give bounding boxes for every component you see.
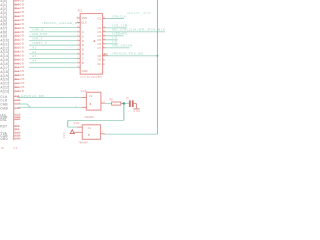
svg-text:4: 4 xyxy=(102,131,104,133)
wire net to IC1 pin row 10 xyxy=(29,66,80,68)
svg-text:I5: I5 xyxy=(82,48,85,52)
bus tap A[20] net BC0B xyxy=(0,77,25,82)
svg-text:I4B: I4B xyxy=(15,106,21,110)
svg-text:74HMN: 74HMN xyxy=(78,140,87,144)
bus tap A[22] net BD0B xyxy=(0,85,25,90)
bus tap SDR net I2B xyxy=(0,115,21,120)
svg-text:12: 12 xyxy=(103,30,105,32)
svg-text:O5: O5 xyxy=(97,38,101,42)
svg-text:ORD: ORD xyxy=(0,137,8,141)
bus tap A[3] net A10B xyxy=(0,10,24,15)
bus tap CAB net I3B xyxy=(0,133,21,138)
bus tap A[23] net A20B xyxy=(0,89,24,94)
junction on right vertical xyxy=(156,55,158,57)
capacitor C8 xyxy=(126,96,133,107)
svg-text:RST: RST xyxy=(0,125,7,129)
svg-text:74HMN: 74HMN xyxy=(84,115,93,119)
gate1 pin 2 stub xyxy=(76,106,87,108)
gate2 pin A stub xyxy=(77,126,83,128)
svg-text:I4B: I4B xyxy=(15,117,21,121)
bus tap A[18] net C90B xyxy=(0,69,24,74)
bus tap A[17] net BA0B xyxy=(0,65,24,70)
junction node dot xyxy=(123,102,126,105)
svg-text:IRD_CACA8: IRD_CACA8 xyxy=(112,44,132,48)
svg-text:DSL: DSL xyxy=(0,118,7,122)
svg-text:10: 10 xyxy=(103,38,105,40)
svg-text:C1: C1 xyxy=(13,146,18,150)
svg-text:1: 1 xyxy=(77,21,78,23)
wire net to IC1 pin row 1 xyxy=(29,26,80,28)
wire net to IC1 pin row 7 xyxy=(29,50,80,55)
svg-text:A[23]: A[23] xyxy=(0,90,9,94)
svg-text:I8: I8 xyxy=(82,61,85,65)
bus tap A[14] net B80B xyxy=(0,53,24,58)
svg-text:C8: C8 xyxy=(126,96,129,100)
gate1 pin 3 output stub xyxy=(101,101,106,104)
wire feedback horizontal xyxy=(68,119,124,121)
wire feedback down left side xyxy=(67,120,69,127)
bus tap A[11] net A60B xyxy=(0,42,24,47)
svg-text:IOR_5: IOR_5 xyxy=(32,36,43,40)
svg-text:O4: O4 xyxy=(97,34,101,38)
bus tap IAS net IC8 xyxy=(0,113,21,118)
IC1 pin VDD stub xyxy=(77,16,88,20)
bus tap A[12] net B70B xyxy=(0,46,24,51)
svg-text:O9: O9 xyxy=(97,58,101,62)
wire net to IC1 pin row 3 xyxy=(29,32,80,37)
bus tap A[9] net B50B xyxy=(0,34,24,39)
gate U2B body xyxy=(82,125,100,140)
svg-text:I1: I1 xyxy=(82,30,85,34)
bus tap A[16] net A90B xyxy=(0,61,24,66)
IC1 right pin O6 wire net I/O xyxy=(97,40,118,46)
IC1 right pin O8 wire net IRDACK_PO5_M8 xyxy=(97,52,157,58)
svg-text:A20B: A20B xyxy=(15,89,25,93)
IC1 right pin O2 wire net ICR_15M xyxy=(97,24,127,30)
svg-text:A4: A4 xyxy=(32,59,36,63)
svg-text:O3: O3 xyxy=(97,30,101,34)
wire net to gate1 pin 2 xyxy=(17,106,81,108)
svg-text:IRDACK_IR05: IRDACK_IR05 xyxy=(127,11,151,15)
svg-text:CLK: CLK xyxy=(82,21,87,25)
bus tap A[1] net B00B xyxy=(0,2,24,7)
wire net to IC1 pin row 8 xyxy=(29,54,80,59)
bus tap TVA net I4B xyxy=(0,131,21,136)
IC U1 IC1 body xyxy=(80,14,102,75)
bus tap A[8] net C50B xyxy=(0,30,24,35)
svg-text:I3: I3 xyxy=(82,39,85,43)
gate1 inner mark xyxy=(90,103,91,104)
wire gate1 out to R8 xyxy=(106,102,112,104)
wire net to IC1 pin row 5 xyxy=(29,41,80,46)
svg-text:9: 9 xyxy=(103,42,104,44)
svg-text:I6: I6 xyxy=(82,52,85,56)
svg-text:=1: =1 xyxy=(89,94,93,98)
svg-text:11: 11 xyxy=(103,34,105,36)
svg-text:IRDACK_PO5_M8: IRDACK_PO5_M8 xyxy=(112,52,143,56)
bus tap RST net D8 xyxy=(0,124,20,129)
svg-text:I2: I2 xyxy=(82,34,85,38)
bus tap A[21] net AC0B xyxy=(0,81,25,86)
IC1 right pin O7 wire net IRD_CACA8 xyxy=(97,44,132,50)
bus tap CAB net I3B xyxy=(0,102,21,107)
bus tap A[4] net B20B xyxy=(0,14,24,19)
IC1 right pin O1 wire net CPUCLK xyxy=(97,14,126,20)
svg-text:O8: O8 xyxy=(97,54,101,58)
wire stub from bus row CAB xyxy=(20,103,27,105)
IC1 pin CLK stub xyxy=(77,21,87,25)
wire net CPUCLK to gate1 pin 1 xyxy=(18,97,82,99)
bus tap A[19] net BB0B xyxy=(0,73,24,78)
svg-text:IRD_PC5: IRD_PC5 xyxy=(32,32,47,36)
supply VCC symbol xyxy=(63,130,82,139)
wire feedback into gate2 xyxy=(68,126,77,128)
IC1 right pin O4 wire net ICREA8/E xyxy=(97,32,127,38)
IC1 inner mark xyxy=(94,40,95,42)
bus tap A[6] net B30B xyxy=(0,22,24,27)
bus tap CLK net KB xyxy=(0,94,20,99)
IC1 right pin O3 wire net MU_ICR(15)#_WR_IRG#_M18 xyxy=(97,28,165,34)
wire net to IC1 pin row 4 xyxy=(29,36,80,41)
wire diagonal join xyxy=(27,104,31,107)
gate1 pin 1 stub xyxy=(76,96,87,98)
wire vertical right side net xyxy=(156,0,158,134)
svg-text:GND: GND xyxy=(82,69,88,73)
svg-text:8: 8 xyxy=(103,46,104,48)
gate U2A body xyxy=(86,92,101,110)
svg-text:OA: OA xyxy=(97,62,101,66)
ground GND symbol xyxy=(133,109,140,113)
svg-text:V1/2: V1/2 xyxy=(74,121,80,125)
bus tap A[5] net C30B xyxy=(0,18,24,23)
resistor R8 xyxy=(109,97,120,105)
svg-text:=1: =1 xyxy=(87,126,91,130)
svg-text:ICT101WPB5: ICT101WPB5 xyxy=(80,75,102,79)
svg-text:IC1: IC1 xyxy=(78,8,83,12)
IC1 right pin O5 wire net I/O xyxy=(97,36,118,42)
bus tap A[7] net B40B xyxy=(0,26,24,31)
svg-text:O7: O7 xyxy=(97,46,101,50)
wire horizontal to gate2 output xyxy=(105,133,157,135)
svg-text:IOR5T_C: IOR5T_C xyxy=(32,41,47,45)
svg-text:I4: I4 xyxy=(82,43,85,47)
gate2 output pin stub xyxy=(101,131,105,134)
svg-text:I7: I7 xyxy=(82,56,85,60)
svg-text:UPC: UPC xyxy=(102,52,108,56)
svg-text:R8: R8 xyxy=(109,97,113,101)
svg-text:A1: A1 xyxy=(32,45,36,49)
svg-text:CPUCLK: CPUCLK xyxy=(112,14,126,18)
svg-text:VCC: VCC xyxy=(63,132,66,138)
gate2 inner mark xyxy=(88,134,89,135)
wire cap to gnd xyxy=(134,103,137,105)
bus tap A[15] net B90B xyxy=(0,57,24,62)
bus tap A[2] net B10B xyxy=(0,6,24,11)
svg-text:OAB: OAB xyxy=(0,107,8,111)
wire R8 to junction xyxy=(121,102,123,104)
bus tap OAB net I4B xyxy=(0,106,21,111)
bus tap x net G4 xyxy=(14,127,20,131)
svg-text:GND: GND xyxy=(133,109,140,113)
bus tap A[10] net B60B xyxy=(0,38,24,43)
wire net to IC1 pin row 2 xyxy=(29,28,80,33)
svg-text:V1/3: V1/3 xyxy=(81,89,87,93)
bus tap DSL net I4B xyxy=(0,117,21,122)
svg-text:2: 2 xyxy=(77,16,78,18)
svg-text:3: 3 xyxy=(103,101,105,103)
bus tap CLK net I3B xyxy=(0,98,21,103)
wire feedback junction down xyxy=(123,104,125,121)
bus tap ORD net I4B xyxy=(0,136,21,141)
bus tap A[0] net C10B xyxy=(0,0,24,3)
svg-text:O1: O1 xyxy=(97,17,101,21)
svg-text:13: 13 xyxy=(103,26,105,28)
svg-text:VDD: VDD xyxy=(82,16,88,20)
svg-text:A2: A2 xyxy=(32,50,36,54)
svg-text:I4B: I4B xyxy=(15,136,21,140)
bus B1 vertical line xyxy=(13,0,15,140)
wire net to IC1 pin row 6 xyxy=(29,45,80,50)
svg-text:A3: A3 xyxy=(32,54,36,58)
svg-text:21: 21 xyxy=(103,17,105,19)
svg-text:B: B xyxy=(2,146,4,150)
svg-text:IOW_5: IOW_5 xyxy=(32,28,43,32)
svg-text:O6: O6 xyxy=(97,42,101,46)
IC1 right NC pin rows xyxy=(97,58,104,62)
bus tap A[13] net C80B xyxy=(0,49,24,54)
wire net to IC1 pin row 9 xyxy=(29,59,80,64)
svg-text:O2: O2 xyxy=(97,26,101,30)
